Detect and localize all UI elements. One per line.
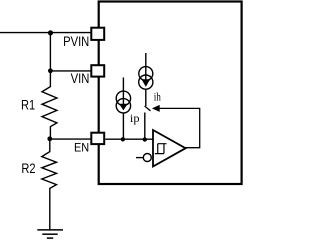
wire EN tap to EN pin — [50, 138, 92, 140]
current source I2 (ih) — [139, 53, 153, 106]
wire PVIN input rail — [0, 32, 91, 34]
feedback arrowhead — [152, 105, 160, 112]
svg-text:R1: R1 — [21, 98, 35, 113]
node junction dot ip to EN line — [121, 137, 125, 141]
pin VIN box — [91, 65, 104, 76]
op-amp U2 comparator triangle — [153, 130, 186, 167]
switch S1 blade — [145, 106, 151, 111]
wire switch lower stub — [144, 113, 146, 140]
inversion bubble — [143, 154, 151, 162]
wire vertical rail PVIN to VIN tap — [49, 33, 51, 71]
svg-text:VIN: VIN — [71, 71, 90, 86]
resistor R1 — [42, 71, 57, 139]
node junction dot EN tap — [47, 136, 52, 141]
svg-text:PVIN: PVIN — [63, 33, 89, 49]
svg-text:EN: EN — [74, 143, 89, 155]
current source I1 (ip) — [116, 78, 130, 140]
svg-text:ih: ih — [154, 89, 161, 103]
pin EN box — [91, 133, 104, 144]
resistor R2 — [42, 139, 57, 230]
wire VIN tap — [50, 70, 91, 72]
wire EN pin to comparator input — [105, 138, 153, 140]
svg-text:ip: ip — [130, 111, 140, 125]
svg-text:R2: R2 — [21, 161, 35, 176]
node junction dot VIN tap — [48, 68, 53, 73]
wire feedback loop — [159, 108, 199, 147]
hysteresis symbol — [155, 144, 167, 154]
ground — [37, 230, 63, 238]
node junction dot switch to EN line — [143, 137, 147, 141]
IC U1 box — [99, 2, 242, 185]
wire inverting input stub — [136, 157, 143, 159]
pin PVIN box — [91, 28, 104, 40]
node junction dot on PVIN wire — [48, 30, 53, 35]
